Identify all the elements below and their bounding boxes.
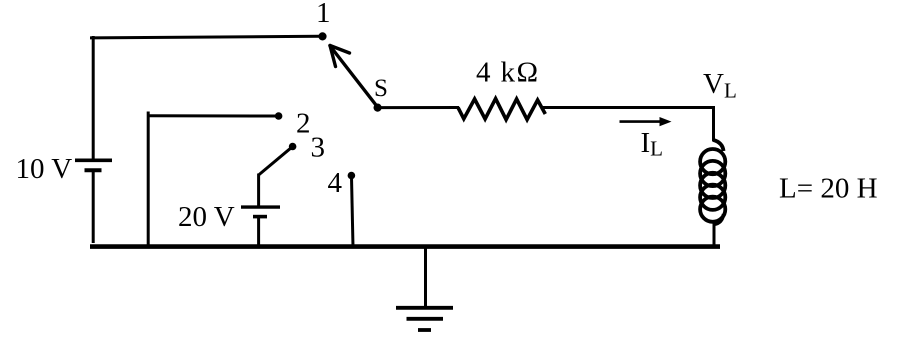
switch S arm with arrowhead pointing to node 1 bbox=[330, 46, 378, 108]
svg-text:10 V: 10 V bbox=[16, 153, 73, 185]
svg-text:S: S bbox=[374, 75, 388, 102]
wire slanted from node 3 to 20V battery bbox=[259, 148, 291, 175]
svg-text:IL: IL bbox=[641, 127, 664, 161]
wire horizontal to node 2 bbox=[148, 114, 276, 117]
inductor L coil loop 3 bbox=[700, 173, 725, 198]
wire 20V battery top lead bbox=[257, 174, 260, 207]
ground stem wire bbox=[424, 246, 427, 307]
current arrow IL bbox=[620, 117, 672, 126]
svg-text:L= 20 H: L= 20 H bbox=[779, 173, 878, 205]
wire second vertical (node 2 branch to bus) bbox=[147, 112, 150, 248]
ground bar 2 bbox=[407, 317, 444, 321]
inductor L bottom hook bbox=[714, 214, 724, 225]
node 2 bbox=[275, 112, 283, 120]
wire left vertical lower (10V battery - to bus) bbox=[92, 172, 95, 244]
resistor R 4 kOhm zigzag bbox=[458, 99, 545, 120]
svg-text:4: 4 bbox=[328, 167, 343, 199]
wire corner down to inductor top bbox=[712, 106, 715, 142]
node 1 bbox=[318, 32, 326, 40]
inductor L coil loop 4 bbox=[700, 185, 725, 210]
svg-text:3: 3 bbox=[311, 132, 326, 164]
node 4 bbox=[348, 172, 356, 180]
ground bar 1 bbox=[396, 306, 453, 310]
wire from node 4 to bus bbox=[352, 177, 354, 247]
node S pole bbox=[374, 104, 382, 112]
svg-text:2: 2 bbox=[296, 108, 311, 140]
node 3 bbox=[289, 143, 297, 151]
wire left vertical upper (to 10V battery +) bbox=[92, 36, 95, 159]
svg-text:20 V: 20 V bbox=[178, 201, 235, 233]
inductor L coil loop 2 bbox=[700, 161, 725, 186]
battery 10V long plate bbox=[75, 159, 112, 163]
inductor L top hook bbox=[714, 140, 724, 151]
wire 20V battery bottom lead to bus bbox=[257, 218, 260, 248]
svg-text:VL: VL bbox=[703, 68, 737, 103]
bottom bus wire bbox=[90, 244, 720, 249]
wire resistor to corner bbox=[541, 106, 714, 109]
wire inductor bottom lead to bus bbox=[713, 224, 716, 249]
inductor L coil loop 5 bbox=[700, 197, 725, 222]
ground bar 3 bbox=[418, 328, 431, 332]
inductor L coil loop 1 bbox=[700, 149, 725, 174]
battery 20V short plate bbox=[253, 215, 267, 219]
svg-text:4 kΩ: 4 kΩ bbox=[476, 57, 539, 89]
wire switch pole to resistor bbox=[378, 106, 460, 109]
battery 20V long plate bbox=[241, 205, 280, 208]
svg-text:1: 1 bbox=[316, 0, 331, 29]
wire top from left corner to node 1 bbox=[90, 36, 320, 38]
battery 10V short plate bbox=[85, 168, 102, 172]
